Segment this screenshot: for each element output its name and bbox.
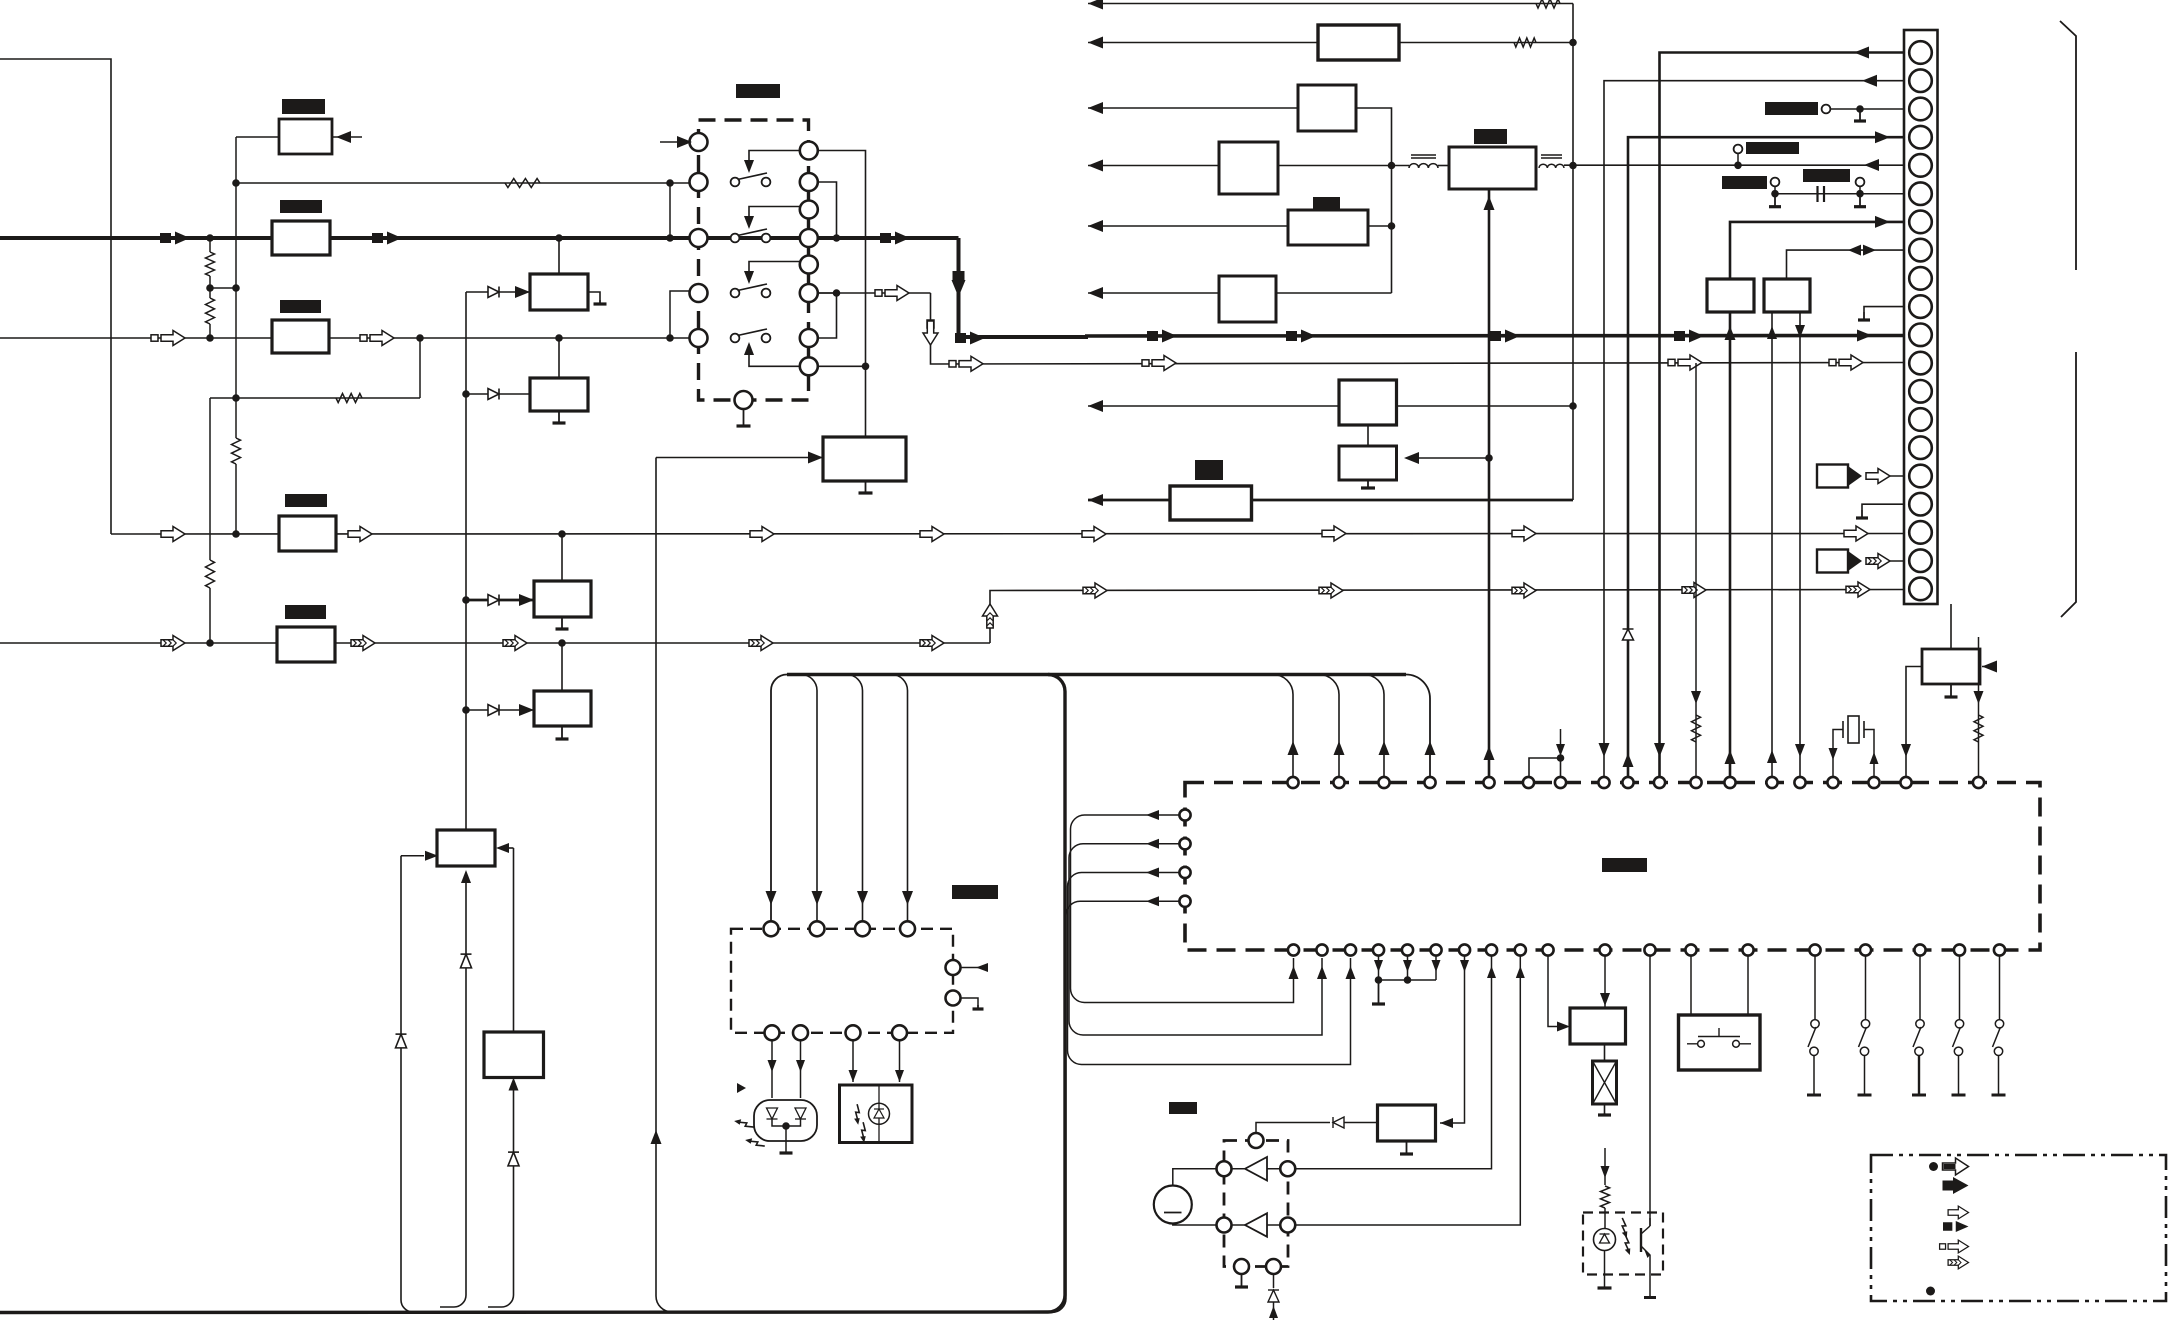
connector pin 15 [1909,436,1932,459]
selector pin R7 [800,357,818,375]
arrow main row down [953,271,965,282]
arrow rowB 5 [1082,527,1106,542]
IC microcontroller dashed box [1185,783,2040,951]
junction x670 main row [666,234,674,242]
block reg1 [530,274,588,310]
junction rowB reg [558,530,566,538]
wire rec tap [670,291,698,338]
arrowhead x656 up [651,1130,662,1144]
block ctrl B [1764,279,1810,312]
wire beep left feed [1548,956,1560,1027]
arrowhead crystal left [1829,748,1838,760]
arrowhead pin8 left [1848,245,1861,256]
amp bottom pin a [1234,1259,1249,1274]
wire mic top [1173,1169,1217,1186]
amp left pin b [1217,1218,1232,1233]
arrowhead switch S2 arm [744,216,754,229]
IC left pin 2 [1179,838,1190,849]
ground amp a [1241,1274,1243,1287]
selector pin R1 [800,173,818,191]
arrowhead ctrl A IC [1725,750,1736,764]
ground IC trio [1378,980,1380,1004]
wire diode line 4 [466,709,534,711]
arrowhead pin4 [1875,131,1890,143]
connector pin 17 [1909,493,1932,516]
legend arrow solid [1943,1177,1969,1194]
label IR box [952,885,998,899]
arrowhead bundle return 1 [1289,966,1299,979]
arrow main row mid [387,232,402,245]
diode D1 [488,287,499,298]
block row500 [1170,486,1252,520]
selector pin L0 [690,133,708,151]
arrowhead ctrl B leg2 IC [1795,744,1805,757]
block disp b [1339,446,1397,480]
wire rowC riser to row590 [990,590,1904,644]
label B4 [285,494,327,507]
arrowhead into ctrl A [1725,326,1736,340]
block B1 [279,119,332,154]
junction rowB res [232,530,240,538]
lightning arrow opto a [1615,1218,1635,1238]
resistor LED [1601,1186,1610,1208]
IC bottom pin 8 [1486,944,1497,955]
label pin5 [1746,142,1799,154]
wire amp b in [1231,1224,1245,1226]
switch S4 blade [738,329,768,336]
arrowhead bus drop 771 [766,891,777,905]
IR bottom pin a [765,1025,780,1040]
switch S4 contact a [731,334,740,343]
junction row2 tap [416,334,424,342]
bus top line [787,673,1406,676]
arrow rowB 7 [1512,526,1536,541]
arrowhead bus riser 1430 [1425,741,1436,755]
IC bottom pin 4 [1373,944,1384,955]
arrowhead selector input [677,136,692,148]
IC bottom pin 18 [1954,944,1965,955]
arrow rowC 1 [161,636,185,651]
wire x513 vertical upper [513,848,515,1032]
arrowhead pin7 [1875,216,1890,228]
arrowhead supply stub [1556,744,1565,756]
resistor row-b [1514,38,1536,47]
IC top pin 12 [1724,777,1735,788]
wire source a [1890,475,1904,477]
wire amp out 1 [1288,956,1492,1169]
wire pin1 net [1660,53,1905,778]
arrow row362 2 [1152,356,1176,371]
switch S1 contact b [762,178,771,187]
key switch symbol [1698,1040,1705,1047]
ground pin3 [1859,109,1861,121]
wire top-left frame [0,59,111,534]
legend dot b [1926,1287,1935,1296]
IC bottom pin 11 [1599,944,1610,955]
IC top pin 6 [1523,777,1534,788]
wire row-e right [1368,225,1392,227]
bracket upper [2060,21,2076,270]
selector pin R6 [800,329,818,347]
wire diode line 1 [466,291,530,293]
resistor x210 low [206,560,215,588]
arrowhead IC left 3 [1146,868,1159,878]
IC top pin 1 [1287,777,1298,788]
arrowhead row-g [1088,400,1103,412]
arrowhead bus drop 862.5 [857,891,868,905]
wire IC left loop 1 [1071,815,1294,1003]
block key switch [1679,1015,1761,1070]
switch K1 [1814,956,1816,1019]
wire pin6 [1775,193,1904,195]
wire IC left loop 4 [1040,901,1179,1312]
wire ctrl B leg1 [1771,312,1773,777]
diode meter line [1333,1117,1344,1128]
diode D4 [488,705,499,716]
wire main row to connector pin11 [1085,334,1904,338]
IC top pin 14 [1794,777,1805,788]
wire osc-resistor net [1978,637,1980,777]
junction sw3 out [833,289,841,297]
arrowhead bus drop 907.5 [902,891,913,905]
IC top pin 13 [1766,777,1777,788]
connector pin 18 [1909,521,1932,544]
wire pin7 net [1730,222,1904,279]
junction divider link [232,284,240,292]
ground reg2 [558,411,560,423]
arrowhead into B1 [336,131,351,143]
arrow rowC 2 [351,636,375,651]
diode x466 [461,954,472,968]
wire LED cathode [1604,1251,1606,1288]
resistor divider R-a [206,252,215,276]
junction sw1 main [833,234,841,242]
wire crystal left leg [1833,730,1843,778]
junction filter-line tap [1485,454,1493,462]
arrowhead beep top [1600,993,1610,1006]
arrow row362 into pin12 [1839,355,1863,370]
connector pin 5 [1909,154,1932,177]
bus left end drop [771,675,787,922]
wire ctrl B leg2 [1799,312,1801,777]
legend dot a [1929,1162,1938,1171]
label filter [1474,129,1507,144]
lightning arrow IR in a [847,1104,867,1124]
wire row-f right [1276,292,1392,294]
arrow rowC 4 [749,636,773,651]
arrow row2 out [370,331,394,346]
wire pin5 sense stub [1737,153,1739,165]
wire reg1 gnd stub [588,292,600,300]
zener diode pin4 line [1623,629,1634,640]
arrowhead bus riser 1384 [1379,741,1390,755]
wire LED common [785,1126,787,1152]
ground pin10 [1863,312,1865,320]
connector pin 13 [1909,380,1932,403]
wire x466 vertical [465,292,467,830]
arrowhead into osc2 bottom [461,870,471,883]
IR top pin b [810,921,825,936]
arrow main row resumes [970,332,985,345]
label B1 [282,99,325,114]
junction feedback right [666,179,674,187]
arrowhead pin8 right [1863,245,1876,256]
junction x1573 row-f [1569,402,1577,410]
wire remote LED feed [1604,1148,1606,1185]
wire reg3 feed [561,534,563,581]
switch S3 contact b [762,289,771,298]
wire mic bottom [1173,1224,1217,1226]
arrowhead IC left 4 [1146,896,1159,906]
arrowhead IR stub [976,963,988,972]
bracket lower [2061,352,2076,617]
selector pin L2 [690,229,708,247]
IR bottom pin b [793,1025,808,1040]
capacitor pin6 [1816,186,1818,202]
arrowhead into pin11 [1857,330,1872,342]
junction main row divider [206,234,214,242]
junction divider mid [206,284,214,292]
switch S3 blade [738,284,768,291]
amplifier triangle b [1245,1213,1267,1236]
label bold row [1195,460,1223,480]
wire diode line 2 [466,393,530,395]
arrowhead into osc2 left [425,851,438,861]
terminal pin5 sense [1734,145,1743,154]
arrow main row r2 [1301,330,1316,343]
arrowhead pin2 down [1599,743,1610,757]
wire row-c left [1088,107,1298,109]
diode D2 [488,389,499,400]
resistor row-a [1536,0,1560,8]
wire IR right stub [960,967,985,969]
switch S2 contact a [731,234,740,243]
arrowhead pin1 down [1654,743,1665,757]
wire pin6 gap [1775,193,1860,195]
wire disp b input [1407,457,1488,459]
resistor r-net [1692,715,1701,742]
switch S4 contact b [762,334,771,343]
wire switch S2 arm link [749,207,800,225]
ground meter [1406,1141,1408,1154]
arrowhead center osc [808,452,823,464]
arrowhead ctrl B leg1 IC [1767,750,1777,763]
arrowhead source b [1848,551,1862,571]
wire key col a [1690,956,1692,1015]
arrowhead amp bias [1269,1306,1278,1318]
legend arrow hatch [1948,1256,1968,1269]
arrow source a [1866,469,1890,484]
diode x401 [396,1034,407,1048]
IC bottom pin 6 [1430,944,1441,955]
IR top pin c [855,921,870,936]
ground disp b [1367,480,1369,488]
selector dashed box [699,120,809,400]
wire pin2 net [1604,81,1904,777]
wire aux stub [1982,666,1997,668]
microphone [1154,1186,1192,1224]
arrow main row r1 [1162,330,1177,343]
wire sw4 link right [818,365,866,367]
wire row-b [1088,42,1573,44]
arrow rowB 1 [161,527,185,542]
wire tap down [419,338,421,398]
bus main trunk [0,675,1065,1313]
wire row-d mid [1278,165,1409,167]
arrowhead pin1 [1854,47,1869,59]
block row-c [1298,85,1356,131]
wire row-d to pin5 [1564,164,1904,166]
wire row-f left [1088,292,1219,294]
wire diode line 3 [466,599,534,602]
IC bottom pin 10 [1542,944,1553,955]
arrowhead row-c [1088,102,1103,114]
arrow main row r4 [1689,330,1704,343]
IC top pin 18 [1973,777,1984,788]
wire row-d left [1088,165,1219,167]
wire bus drop b [801,675,817,922]
arrow row590 2 [1319,583,1343,598]
junction pin3 gnd [1856,105,1864,113]
junction row2 rec [666,334,674,342]
IC top pin 8 [1598,777,1609,788]
IC bottom pin 5 [1402,944,1413,955]
selector pin R0 [800,142,818,160]
wire pin4 net [1628,137,1904,777]
arrowhead aux [1982,661,1997,673]
arrowhead pin2 [1862,75,1877,87]
junction rowC left [206,639,214,647]
resistor divider R-b [206,298,215,324]
label B3 [280,300,321,313]
IC top pin 7 [1555,777,1566,788]
selector pin L1 [690,173,708,191]
junction pin6 b [1856,190,1864,198]
wire supply stub [1560,729,1562,752]
ground IR right [977,1005,979,1009]
junction LED common [782,1122,790,1130]
wire photo emitter [1649,1262,1651,1297]
wire sw1 out [818,182,837,238]
crystal X1 [1848,716,1859,743]
wire amp b out [1267,1224,1281,1226]
legend arrow finished [1943,1158,1969,1175]
wire bus drop d [892,675,908,922]
junction pin6 a [1771,190,1779,198]
IC bottom pin 13 [1685,944,1696,955]
wire key col b [1747,956,1749,1015]
arrowhead IC left 1 [1146,810,1159,820]
selector pin L3 [690,284,708,302]
label B2 [280,200,322,213]
junction x1573 row-b [1569,39,1577,47]
junction pin5 sense [1734,162,1742,170]
arrowhead amp out 2 [1516,966,1525,978]
block B5 [277,627,335,662]
amplifier triangle a [1245,1157,1267,1181]
connector pin 3 [1909,98,1932,121]
junction x466 b [462,596,470,604]
IC bottom pin 12 [1644,944,1655,955]
connector pin 19 [1909,549,1932,572]
junction x466 c [462,706,470,714]
bus right end drop [1406,675,1430,777]
amp left pin a [1217,1161,1232,1176]
arrowhead into osc3 bottom [509,1078,519,1091]
ground reg4 [561,726,563,739]
arrowhead bus riser 1339 [1334,741,1345,755]
ground K3 [1912,1094,1926,1097]
wire pin-resistor net [1695,363,1697,777]
inductor L2 [1539,164,1564,168]
label mic [1169,1102,1197,1114]
connector pin 9 [1909,267,1932,290]
diode amp bias [1273,1274,1275,1288]
wire row-e left [1088,225,1288,227]
switch K3 [1919,956,1921,1019]
ground K1 [1807,1094,1821,1097]
junction row2 reg [555,334,563,342]
connector pin 2 [1909,69,1932,92]
wire LED pair feeds [772,1040,801,1098]
junction reg1 [555,234,563,242]
switch S2 contact b [762,234,771,243]
connector pin 4 [1909,126,1932,149]
connector pin 10 [1909,295,1932,318]
wire x236 vertical [235,137,237,288]
connector pin 20 [1909,578,1932,601]
resistor feedback [505,179,540,188]
selector pin R5 [800,284,818,302]
IR right pin b [946,991,961,1006]
connector pin 6 [1909,182,1932,205]
ground reg1 [599,300,601,304]
ground piezo [1604,1113,1606,1115]
junction gnd trio b [1404,976,1412,984]
wire center osc input [656,457,823,459]
IC top pin 16 [1868,777,1879,788]
arrow row293 down [927,320,934,328]
block beep amp [1570,1008,1626,1044]
ground aux [1950,684,1952,697]
wire B1 left [236,136,279,138]
block row-e [1288,210,1368,245]
IC bottom pin 16 [1860,944,1871,955]
amp right pin a [1280,1161,1295,1176]
junction x1573 row-d [1569,162,1577,170]
wire selector input stub [660,141,689,143]
selector pin R3 [800,229,818,247]
connector pin 11 [1909,324,1932,347]
IC top pin 5 [1483,777,1494,788]
arrow source b [1866,554,1890,569]
arrowhead switch S3 arm [744,271,754,284]
arrowhead beep left [1557,1022,1570,1032]
arrowhead filter up2 [1484,746,1495,760]
wire reg1 feed [558,238,560,274]
IC top pin 17 [1900,777,1911,788]
amp bottom pin b [1266,1259,1281,1274]
legend dash-dot box [1871,1155,2166,1301]
wire x513 lower vertical [488,1090,514,1307]
arrow rowC 5 [920,636,944,651]
wire row293 to pin12 [931,293,1905,364]
terminal pin6 b [1856,178,1865,187]
ground center osc [865,481,867,493]
block row-f [1219,276,1276,322]
piezo transducer [1604,1044,1606,1061]
block B2 [272,221,330,255]
